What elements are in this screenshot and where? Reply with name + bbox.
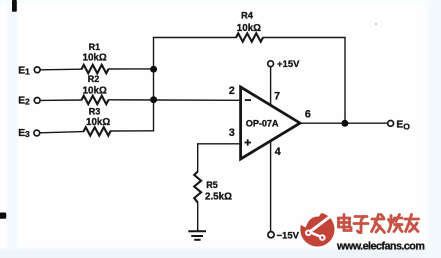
svg-text:2: 2: [229, 85, 235, 97]
svg-text:OP-07A: OP-07A: [246, 119, 279, 129]
svg-text:R2: R2: [88, 74, 100, 84]
svg-text:10kΩ: 10kΩ: [83, 53, 107, 64]
svg-text:R4: R4: [241, 9, 254, 20]
svg-text:R3: R3: [89, 107, 101, 117]
svg-text:7: 7: [274, 91, 280, 103]
svg-text:4: 4: [275, 146, 281, 158]
svg-text:2: 2: [25, 97, 30, 107]
svg-text:3: 3: [229, 127, 235, 139]
svg-text:3: 3: [25, 129, 30, 139]
svg-text:R1: R1: [89, 42, 101, 52]
svg-text:1: 1: [25, 66, 30, 76]
svg-text:−15V: −15V: [277, 230, 300, 241]
svg-text:6: 6: [305, 109, 311, 121]
svg-text:+15V: +15V: [277, 59, 300, 70]
svg-text:R5: R5: [206, 180, 218, 190]
svg-text:2.5kΩ: 2.5kΩ: [205, 191, 232, 202]
svg-text:O: O: [403, 122, 410, 132]
svg-text:10kΩ: 10kΩ: [237, 23, 261, 34]
svg-text:10kΩ: 10kΩ: [86, 117, 110, 128]
svg-text:www.elecfans.com: www.elecfans.com: [336, 241, 424, 253]
svg-text:10kΩ: 10kΩ: [83, 85, 107, 96]
